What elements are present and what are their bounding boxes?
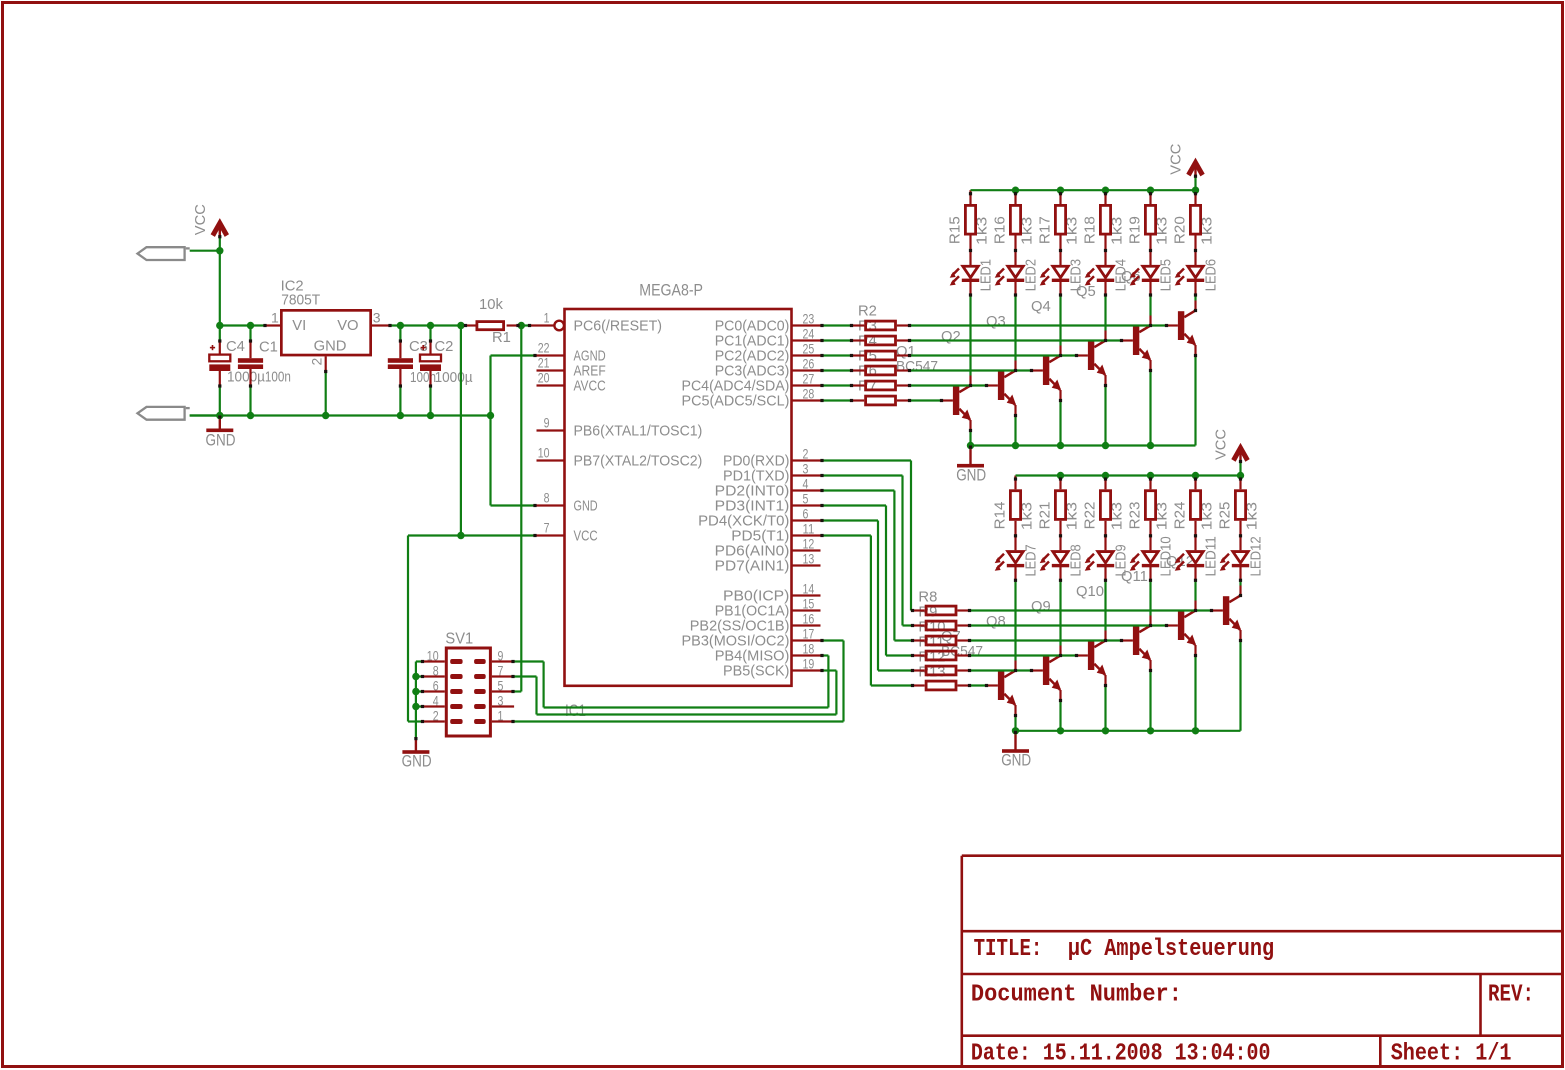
- svg-text:VO: VO: [337, 318, 358, 334]
- svg-text:PB2(SS/OC1B): PB2(SS/OC1B): [690, 619, 790, 635]
- svg-text:25: 25: [803, 342, 815, 357]
- svg-text:21: 21: [538, 356, 550, 371]
- svg-text:GND: GND: [314, 339, 347, 355]
- svg-text:3: 3: [373, 309, 381, 325]
- svg-text:Q10: Q10: [1076, 584, 1104, 600]
- svg-text:R16: R16: [992, 216, 1009, 244]
- svg-text:R18: R18: [1082, 216, 1099, 244]
- svg-text:R17: R17: [1037, 216, 1054, 244]
- svg-text:1: 1: [271, 309, 279, 325]
- svg-text:R25: R25: [1217, 502, 1234, 530]
- svg-text:IC1: IC1: [565, 702, 586, 720]
- svg-text:14: 14: [803, 582, 815, 597]
- svg-text:PB1(OC1A): PB1(OC1A): [715, 604, 790, 620]
- svg-text:2: 2: [803, 447, 809, 462]
- svg-text:PD1(TXD): PD1(TXD): [723, 469, 789, 485]
- svg-text:15: 15: [803, 597, 815, 612]
- svg-text:R20: R20: [1172, 216, 1189, 244]
- svg-text:C4: C4: [226, 339, 245, 355]
- svg-text:PB0(ICP): PB0(ICP): [723, 589, 789, 605]
- svg-text:LED12: LED12: [1248, 536, 1265, 576]
- svg-text:PC4(ADC4/SDA): PC4(ADC4/SDA): [682, 379, 790, 395]
- svg-text:16: 16: [803, 612, 815, 627]
- svg-text:4: 4: [803, 477, 809, 492]
- svg-text:Date: 15.11.2008 13:04:00: Date: 15.11.2008 13:04:00: [971, 1041, 1271, 1068]
- svg-text:GND: GND: [1001, 752, 1031, 770]
- svg-text:18: 18: [803, 642, 815, 657]
- svg-text:LED7: LED7: [1023, 544, 1040, 576]
- svg-text:PC1(ADC1): PC1(ADC1): [715, 334, 790, 350]
- svg-text:R19: R19: [1127, 216, 1144, 244]
- svg-text:2: 2: [309, 358, 325, 366]
- svg-text:SV1: SV1: [445, 631, 473, 648]
- svg-text:100n: 100n: [265, 370, 291, 386]
- svg-text:µC Ampelsteuerung: µC Ampelsteuerung: [1068, 936, 1274, 963]
- svg-text:PD4(XCK/T0): PD4(XCK/T0): [698, 514, 789, 530]
- svg-text:8: 8: [544, 491, 550, 506]
- svg-text:PD0(RXD): PD0(RXD): [723, 454, 789, 470]
- svg-text:23: 23: [803, 312, 815, 327]
- svg-text:VI: VI: [292, 318, 306, 334]
- svg-text:LED11: LED11: [1203, 536, 1220, 576]
- svg-text:26: 26: [803, 357, 815, 372]
- svg-text:C1: C1: [259, 340, 278, 356]
- svg-text:LED2: LED2: [1023, 259, 1040, 291]
- svg-text:22: 22: [538, 341, 550, 356]
- svg-text:AREF: AREF: [574, 364, 606, 380]
- svg-text:PB3(MOSI/OC2): PB3(MOSI/OC2): [682, 634, 790, 650]
- svg-text:Q2: Q2: [941, 329, 961, 345]
- svg-text:10k: 10k: [479, 297, 503, 313]
- svg-text:REV:: REV:: [1488, 982, 1534, 1009]
- svg-text:27: 27: [803, 372, 815, 387]
- svg-text:17: 17: [803, 627, 815, 642]
- svg-text:LED6: LED6: [1203, 259, 1220, 291]
- svg-text:R23: R23: [1127, 502, 1144, 530]
- svg-text:Q8: Q8: [986, 614, 1006, 630]
- svg-text:3: 3: [803, 462, 809, 477]
- svg-text:13: 13: [803, 552, 815, 567]
- svg-text:24: 24: [803, 327, 815, 342]
- svg-text:LED4: LED4: [1113, 259, 1130, 291]
- svg-text:VCC: VCC: [192, 204, 209, 235]
- svg-text:VCC: VCC: [1168, 144, 1185, 175]
- svg-text:VCC: VCC: [574, 529, 598, 545]
- svg-text:LED1: LED1: [978, 259, 995, 291]
- svg-text:LED9: LED9: [1113, 544, 1130, 576]
- svg-text:Q1: Q1: [896, 344, 916, 360]
- svg-text:20: 20: [538, 371, 550, 386]
- svg-text:6: 6: [803, 507, 809, 522]
- svg-text:1000µ: 1000µ: [435, 370, 473, 386]
- svg-text:GND: GND: [574, 499, 598, 515]
- svg-text:PC6(/RESET): PC6(/RESET): [574, 319, 663, 335]
- svg-text:AGND: AGND: [574, 349, 606, 365]
- svg-text:PD3(INT1): PD3(INT1): [715, 499, 790, 515]
- svg-text:PD7(AIN1): PD7(AIN1): [715, 559, 790, 575]
- svg-text:7: 7: [544, 521, 550, 536]
- svg-text:R22: R22: [1082, 502, 1099, 530]
- svg-text:VCC: VCC: [1213, 429, 1230, 460]
- svg-text:PC0(ADC0): PC0(ADC0): [715, 319, 790, 335]
- svg-text:MEGA8-P: MEGA8-P: [639, 282, 703, 300]
- svg-text:LED3: LED3: [1068, 259, 1085, 291]
- svg-text:PC2(ADC2): PC2(ADC2): [715, 349, 790, 365]
- svg-text:Q9: Q9: [1031, 599, 1051, 615]
- svg-text:1000µ: 1000µ: [227, 370, 265, 386]
- svg-text:R15: R15: [947, 216, 964, 244]
- svg-text:GND: GND: [402, 753, 432, 771]
- svg-text:PB7(XTAL2/TOSC2): PB7(XTAL2/TOSC2): [574, 454, 703, 470]
- svg-text:11: 11: [803, 522, 815, 537]
- svg-text:19: 19: [803, 657, 815, 672]
- svg-text:LED8: LED8: [1068, 544, 1085, 576]
- svg-text:Q4: Q4: [1031, 299, 1051, 315]
- svg-text:PD5(T1): PD5(T1): [731, 529, 789, 545]
- svg-text:R14: R14: [992, 502, 1009, 530]
- svg-text:5: 5: [803, 492, 809, 507]
- svg-text:R24: R24: [1172, 502, 1189, 530]
- svg-text:7805T: 7805T: [281, 293, 320, 309]
- svg-text:9: 9: [544, 416, 550, 431]
- svg-text:10: 10: [538, 446, 550, 461]
- svg-text:R8: R8: [918, 590, 937, 606]
- svg-text:100n: 100n: [410, 370, 436, 386]
- svg-text:PB4(MISO): PB4(MISO): [715, 649, 790, 665]
- svg-text:R1: R1: [492, 330, 511, 346]
- svg-text:12: 12: [803, 537, 815, 552]
- svg-text:TITLE:: TITLE:: [974, 936, 1043, 963]
- svg-text:R21: R21: [1037, 502, 1054, 530]
- svg-text:BC547: BC547: [896, 359, 938, 375]
- svg-text:PD2(INT0): PD2(INT0): [715, 484, 790, 500]
- svg-text:LED5: LED5: [1158, 259, 1175, 291]
- svg-text:PC5(ADC5/SCL): PC5(ADC5/SCL): [682, 394, 790, 410]
- svg-text:PB5(SCK): PB5(SCK): [723, 664, 789, 680]
- svg-text:AVCC: AVCC: [574, 379, 606, 395]
- svg-text:PC3(ADC3): PC3(ADC3): [715, 364, 790, 380]
- svg-text:GND: GND: [956, 466, 986, 484]
- svg-text:C2: C2: [435, 339, 454, 355]
- svg-text:Q3: Q3: [986, 314, 1006, 330]
- svg-text:Sheet: 1/1: Sheet: 1/1: [1391, 1041, 1512, 1068]
- svg-text:R2: R2: [858, 304, 877, 320]
- svg-text:GND: GND: [206, 431, 236, 449]
- svg-text:28: 28: [803, 387, 815, 402]
- svg-text:PB6(XTAL1/TOSC1): PB6(XTAL1/TOSC1): [574, 424, 703, 440]
- svg-text:1: 1: [544, 311, 550, 326]
- svg-text:Document Number:: Document Number:: [971, 982, 1182, 1009]
- svg-text:PD6(AIN0): PD6(AIN0): [715, 544, 790, 560]
- svg-text:LED10: LED10: [1158, 536, 1175, 576]
